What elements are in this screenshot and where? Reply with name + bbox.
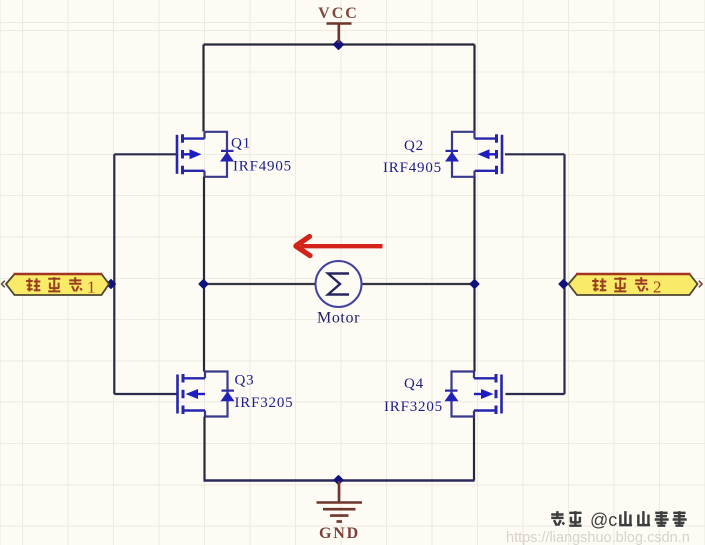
svg-text:https://liangshuo.blog.csdn.n: https://liangshuo.blog.csdn.n (506, 530, 690, 545)
svg-text:Motor: Motor (317, 310, 360, 327)
svg-text:IRF4905: IRF4905 (383, 160, 442, 176)
svg-text:IRF3205: IRF3205 (235, 395, 294, 411)
svg-text:Q2: Q2 (404, 138, 424, 154)
svg-text:GND: GND (319, 525, 360, 542)
svg-text:2: 2 (653, 278, 662, 297)
svg-text:1: 1 (87, 278, 96, 297)
svg-text:VCC: VCC (318, 5, 359, 22)
svg-text:@c: @c (590, 510, 617, 530)
svg-text:Q3: Q3 (235, 373, 255, 389)
svg-text:Q1: Q1 (231, 136, 251, 152)
svg-text:Q4: Q4 (404, 376, 424, 392)
svg-text:IRF3205: IRF3205 (384, 399, 443, 415)
svg-text:IRF4905: IRF4905 (233, 159, 292, 175)
